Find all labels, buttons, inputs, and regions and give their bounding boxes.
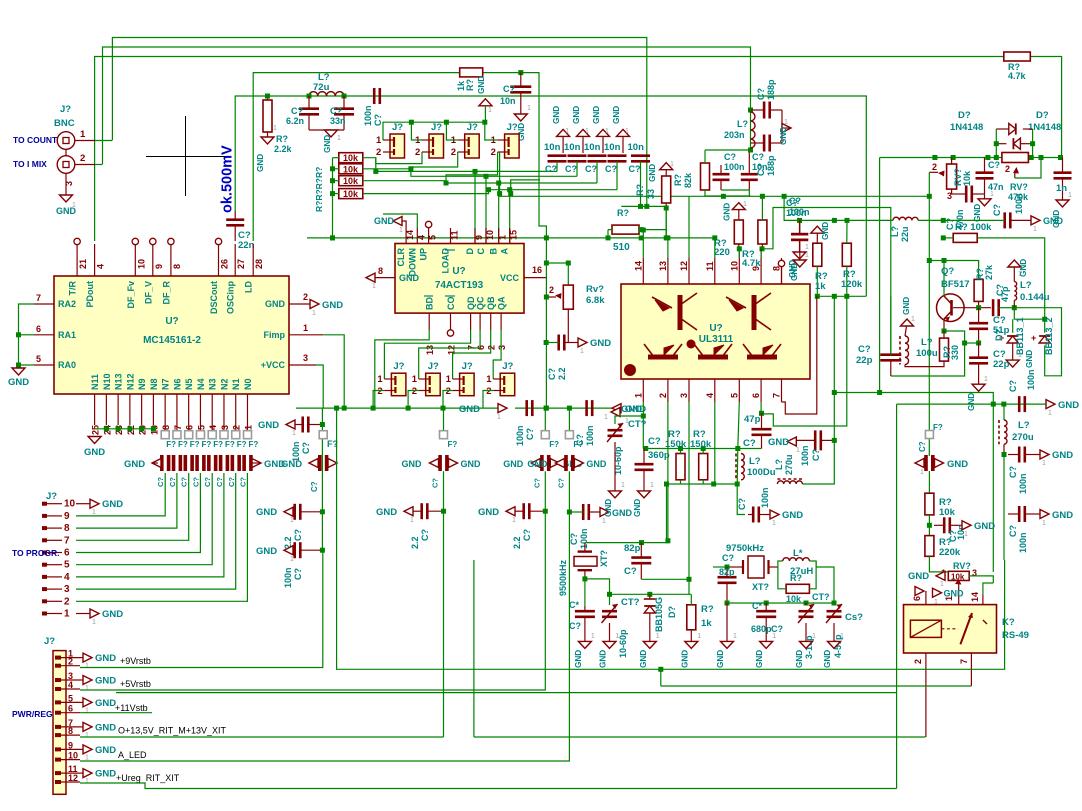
svg-text:F?: F? <box>166 440 176 449</box>
svg-text:16: 16 <box>532 265 542 275</box>
svg-text:Q?: Q? <box>941 266 954 277</box>
svg-text:220k: 220k <box>939 547 961 558</box>
capacitor C? 82p a <box>631 558 651 564</box>
svg-text:C?: C? <box>569 621 581 631</box>
svg-text:GND: GND <box>768 437 789 448</box>
svg-text:5: 5 <box>36 354 41 364</box>
trimmer Cs? 4-57p <box>827 611 842 617</box>
pin 24 N10 <box>105 394 107 425</box>
svg-text:2: 2 <box>415 147 420 158</box>
svg-text:C?: C? <box>605 164 617 174</box>
svg-text:1: 1 <box>565 128 569 135</box>
ground GND xtal row <box>643 641 656 648</box>
svg-text:10k: 10k <box>343 176 359 186</box>
capacitor C? 100n inline <box>374 88 380 104</box>
svg-text:1: 1 <box>697 633 701 640</box>
wire VCC col <box>321 408 323 550</box>
wire routing net5 <box>500 152 930 261</box>
svg-text:1: 1 <box>85 707 89 714</box>
ground GND R2.2k <box>261 137 274 144</box>
svg-text:N8: N8 <box>149 378 159 390</box>
resistor R? 33 <box>662 176 671 203</box>
crosshair marker <box>146 116 225 196</box>
wire top bus 2 <box>103 47 751 164</box>
ground GND flag right col <box>1040 450 1049 459</box>
capacitor C? 33n <box>334 109 354 115</box>
svg-text:D?: D? <box>958 110 971 121</box>
svg-text:C?: C? <box>556 478 565 488</box>
svg-text:OSCinp: OSCinp <box>226 280 236 314</box>
pin 7 UL3111 bottom <box>781 379 783 402</box>
capacitor C* 680p <box>756 611 776 617</box>
svg-text:RS-49: RS-49 <box>1002 630 1029 641</box>
svg-text:L?: L? <box>1018 420 1030 431</box>
svg-text:C?: C? <box>310 481 319 492</box>
svg-text:GND: GND <box>723 203 732 221</box>
pin 14 CLR <box>405 228 407 244</box>
capacitor C? 100n bus a <box>527 400 533 416</box>
svg-text:DF_V: DF_V <box>143 281 153 304</box>
svg-text:26: 26 <box>220 259 230 269</box>
svg-text:100n: 100n <box>283 567 293 588</box>
capacitor C? 6.2n <box>299 109 319 115</box>
svg-text:12: 12 <box>68 773 78 783</box>
svg-text:GND: GND <box>1052 450 1073 461</box>
svg-text:L?: L? <box>737 119 748 129</box>
ground GND under 33n <box>325 130 338 137</box>
svg-text:PWR/REG: PWR/REG <box>12 709 53 719</box>
wire 484 bus <box>667 483 738 485</box>
wire bottom bus 1 <box>337 408 1005 669</box>
wire top bus 3 <box>95 57 1062 242</box>
capacitor C? 100n right <box>1005 212 1011 228</box>
svg-text:N9: N9 <box>137 378 147 390</box>
ground GND 22p <box>972 384 985 391</box>
svg-text:N10: N10 <box>102 373 112 390</box>
svg-text:N1: N1 <box>231 378 241 390</box>
pin 22 N12 <box>129 394 131 425</box>
svg-text:R?: R? <box>790 573 802 583</box>
svg-text:LD: LD <box>244 281 254 293</box>
capacitor C? near UL pin8 <box>791 234 808 240</box>
svg-text:GND: GND <box>586 459 607 469</box>
wire bottom C100n row <box>897 403 1047 405</box>
svg-text:10n: 10n <box>628 142 645 153</box>
svg-text:UP: UP <box>419 248 429 261</box>
pin 28 LD <box>252 244 254 276</box>
svg-text:GND: GND <box>592 106 601 124</box>
svg-text:C?: C? <box>168 477 177 487</box>
svg-text:33: 33 <box>646 189 656 199</box>
transistor pair right in UL3111 <box>726 293 771 330</box>
svg-text:R?R?R?R?: R?R?R?R? <box>314 167 324 212</box>
svg-text:C?: C? <box>293 529 303 541</box>
svg-text:L?: L? <box>921 337 933 348</box>
wire xtal2 wiring <box>727 566 743 568</box>
wire J row1 top bus <box>383 122 485 140</box>
svg-text:1: 1 <box>376 135 382 146</box>
wire diode loop <box>995 129 997 158</box>
svg-text:GND: GND <box>477 76 486 94</box>
svg-text:10k: 10k <box>939 507 956 518</box>
wire UL pin11 <box>714 238 716 258</box>
capacitor C? 10n relay <box>944 517 950 533</box>
svg-text:C?: C? <box>293 568 303 580</box>
wire xtal bottom bus <box>585 579 691 594</box>
svg-text:330: 330 <box>950 345 960 360</box>
pin 13 UL3111 top <box>667 258 669 284</box>
svg-text:BB113_1: BB113_1 <box>1015 317 1025 355</box>
trimmer CT? 3-15p <box>799 611 814 617</box>
ground GND BNC <box>60 195 73 202</box>
svg-text:ok.500mV: ok.500mV <box>220 145 236 213</box>
svg-text:GND: GND <box>823 650 832 668</box>
potentiometer RV? 470k <box>1002 153 1029 163</box>
svg-text:8: 8 <box>68 726 73 736</box>
svg-text:L*: L* <box>793 548 803 559</box>
wire row2 pin2 bus <box>373 391 384 409</box>
svg-text:1: 1 <box>1018 352 1022 359</box>
polarized cap relay col <box>926 455 933 471</box>
svg-text:2: 2 <box>1005 164 1010 174</box>
svg-text:+11Vstb: +11Vstb <box>115 703 148 713</box>
ground GND under C10n <box>514 114 527 121</box>
potentiometer RV? 10k <box>947 164 957 189</box>
wire R1k to cap <box>518 70 523 75</box>
pin 9 UL3111 top <box>760 258 762 284</box>
svg-text:1k: 1k <box>701 618 712 629</box>
svg-text:C?: C? <box>191 477 200 487</box>
svg-text:C?: C? <box>789 196 801 206</box>
wire LD pin28 net <box>253 73 460 241</box>
svg-text:1: 1 <box>446 374 452 385</box>
svg-text:10k: 10k <box>962 170 972 186</box>
svg-text:22p: 22p <box>993 359 1010 370</box>
svg-text:C?: C? <box>1008 466 1018 478</box>
ground GND flag right 100n <box>1031 216 1040 225</box>
ground GND wiper <box>933 588 942 597</box>
wire 82p bottom to pin3 <box>641 578 689 580</box>
svg-text:C?: C? <box>301 442 311 454</box>
svg-text:F?: F? <box>201 440 211 449</box>
ground GND RA pins <box>12 368 25 375</box>
pin 8 stub <box>778 260 784 266</box>
wire routing net3 <box>363 181 597 183</box>
svg-text:J?: J? <box>507 122 518 133</box>
svg-text:L?: L? <box>774 459 784 470</box>
pin 4 DOWN <box>416 228 418 244</box>
capacitor C* cluster left <box>575 611 595 617</box>
wire prog fan <box>76 473 165 516</box>
svg-text:J?: J? <box>44 636 55 647</box>
svg-text:188p: 188p <box>766 79 776 100</box>
svg-text:BF517: BF517 <box>941 279 970 290</box>
svg-text:1: 1 <box>964 531 968 538</box>
svg-text:C?: C? <box>215 477 224 487</box>
svg-text:C?: C? <box>547 368 557 380</box>
pin 23 N13 <box>117 394 119 425</box>
wire mid bus 408 <box>296 407 499 409</box>
capacitor C? 22p bf <box>969 358 988 364</box>
svg-text:GND: GND <box>503 459 524 469</box>
svg-text:22u: 22u <box>900 226 910 242</box>
capacitor C? 22p left <box>880 355 901 361</box>
wire routing net4 <box>363 190 617 194</box>
wire UL pin7 loop <box>782 296 817 414</box>
relay pins top <box>925 591 927 605</box>
capacitor C? 1n <box>1054 173 1072 179</box>
svg-text:7: 7 <box>64 535 70 546</box>
svg-text:U?: U? <box>709 323 722 334</box>
svg-text:GND: GND <box>621 404 642 415</box>
svg-text:1: 1 <box>733 633 737 640</box>
ground GND 2.2 cluster left <box>284 507 293 516</box>
svg-text:GND: GND <box>256 507 277 518</box>
svg-text:1: 1 <box>1042 460 1046 467</box>
svg-text:GND: GND <box>648 164 657 182</box>
resistor R? 10k #3 <box>339 176 363 186</box>
svg-text:C?: C? <box>156 477 165 487</box>
wire base node <box>976 305 981 310</box>
svg-text:1: 1 <box>372 283 376 290</box>
wire R33 down <box>665 208 667 238</box>
svg-text:A_LED: A_LED <box>118 750 147 760</box>
svg-text:GND: GND <box>461 459 482 469</box>
wire 188p join <box>781 110 783 143</box>
svg-text:10: 10 <box>485 230 495 240</box>
svg-text:100n: 100n <box>789 207 810 217</box>
svg-text:2: 2 <box>487 345 497 350</box>
svg-text:1: 1 <box>625 128 629 135</box>
svg-text:N5: N5 <box>184 378 194 390</box>
pin 4 PDout <box>94 244 96 276</box>
capacitor C? 100n right col b <box>1019 506 1025 522</box>
svg-text:1: 1 <box>772 520 776 527</box>
wire bus mid <box>307 237 715 239</box>
svg-text:100n: 100n <box>800 445 810 466</box>
svg-text:1: 1 <box>591 633 595 640</box>
svg-text:GND: GND <box>402 459 423 469</box>
svg-text:1: 1 <box>1048 410 1052 417</box>
svg-text:PDout: PDout <box>85 281 95 308</box>
resistor R? 1k right of UL <box>813 243 822 266</box>
F? bead row-1 <box>161 431 169 439</box>
svg-text:C: C <box>476 248 486 255</box>
svg-text:1n: 1n <box>1056 183 1067 194</box>
wire VCO main net <box>880 157 1061 159</box>
svg-text:1: 1 <box>337 135 341 142</box>
svg-text:10: 10 <box>64 499 76 510</box>
svg-text:GND: GND <box>95 653 116 664</box>
svg-text:GND: GND <box>258 420 279 431</box>
IC U? UL3111 <box>621 284 810 379</box>
svg-text:GND: GND <box>95 698 116 709</box>
F? bead col1 <box>319 431 327 439</box>
svg-text:82p: 82p <box>719 567 735 577</box>
svg-text:270u: 270u <box>1012 432 1034 443</box>
svg-text:GND: GND <box>782 510 803 521</box>
ground GND L100u <box>901 319 914 326</box>
svg-text:1: 1 <box>92 509 96 516</box>
inductor L? 72u <box>309 92 344 96</box>
connector J? row2-1 <box>391 373 406 396</box>
svg-text:9: 9 <box>154 264 164 269</box>
ground GND flag row right <box>252 459 261 468</box>
svg-text:13: 13 <box>658 261 668 271</box>
svg-text:F?: F? <box>225 440 235 449</box>
capacitor C? 360p <box>635 464 654 470</box>
svg-text:QA: QA <box>497 296 507 310</box>
ground GND pot left <box>936 571 945 580</box>
svg-text:GND: GND <box>633 499 642 517</box>
svg-text:10n: 10n <box>604 142 621 153</box>
capacitor C? 82p b <box>718 577 737 583</box>
svg-text:2: 2 <box>377 386 382 397</box>
F? beads mid <box>440 431 448 439</box>
F? bead relay col <box>925 431 933 439</box>
svg-text:10k: 10k <box>343 189 359 199</box>
wire top bus 1 <box>112 38 646 207</box>
svg-text:C?: C? <box>522 529 532 541</box>
svg-text:1: 1 <box>940 581 944 588</box>
svg-text:RA0: RA0 <box>58 360 76 370</box>
svg-text:C?: C? <box>648 436 661 447</box>
svg-text:J?: J? <box>60 104 71 115</box>
pin 1 UL3111 bottom <box>642 379 644 402</box>
resistor R? 82k <box>701 163 710 190</box>
svg-text:C?: C? <box>752 152 764 162</box>
resistor R? 10k #1 <box>339 153 363 163</box>
svg-text:J?: J? <box>462 361 473 372</box>
svg-text:6: 6 <box>751 393 761 398</box>
svg-text:BB105G: BB105G <box>654 597 664 632</box>
svg-text:QC: QC <box>476 296 486 310</box>
svg-text:CO: CO <box>446 297 456 311</box>
svg-text:O+13,5V_RIT_M+13V_XIT: O+13,5V_RIT_M+13V_XIT <box>118 726 227 736</box>
svg-text:2: 2 <box>80 153 85 164</box>
resistor R? 10k #2 <box>339 164 363 174</box>
svg-text:C?: C? <box>737 498 747 510</box>
svg-text:6: 6 <box>64 548 70 559</box>
wire J2 pin drops <box>376 152 422 164</box>
F? bead row-6 <box>220 431 228 439</box>
svg-text:C?: C? <box>373 114 383 126</box>
svg-text:1: 1 <box>377 374 383 385</box>
potentiometer RV? 10k relay <box>948 571 969 580</box>
svg-text:1: 1 <box>290 517 294 524</box>
svg-text:2: 2 <box>658 393 668 398</box>
svg-text:1: 1 <box>605 128 609 135</box>
svg-text:28: 28 <box>254 259 264 269</box>
capacitor C? 2.2 vco <box>559 335 565 351</box>
wire 834 column <box>833 296 835 440</box>
svg-text:1: 1 <box>621 482 625 489</box>
svg-text:RA2: RA2 <box>58 299 76 309</box>
svg-text:2: 2 <box>64 596 70 607</box>
capacitor C? 100n q-out <box>1019 396 1025 412</box>
svg-text:3: 3 <box>64 181 74 186</box>
capacitor C? 100n left col <box>791 234 808 240</box>
connector J? row1-4 <box>505 134 519 158</box>
inductor L* 27uH <box>778 561 783 567</box>
potentiometer Rv? 6.8k <box>563 285 573 309</box>
svg-text:100Du: 100Du <box>747 467 776 478</box>
svg-text:10n: 10n <box>500 96 516 106</box>
svg-text:1: 1 <box>805 244 809 251</box>
svg-text:1: 1 <box>410 517 414 524</box>
svg-text:1: 1 <box>85 778 89 785</box>
svg-text:GND: GND <box>95 745 116 756</box>
capacitor C? 100n right col <box>1002 452 1007 457</box>
ground GND xtal row <box>578 641 591 648</box>
svg-text:C?: C? <box>629 164 641 174</box>
svg-text:47p: 47p <box>744 414 761 425</box>
wire UL pin5 down <box>737 402 739 484</box>
svg-text:GND: GND <box>1019 259 1028 277</box>
wire right col down2 <box>1003 455 1005 561</box>
svg-text:C?: C? <box>722 553 734 563</box>
wire collector node <box>943 261 945 297</box>
svg-text:GND: GND <box>795 650 804 668</box>
pin 8 DF_R <box>170 244 172 276</box>
svg-text:51p: 51p <box>993 325 1010 336</box>
svg-text:360p: 360p <box>648 450 670 461</box>
svg-text:F?: F? <box>549 440 559 449</box>
svg-text:10: 10 <box>136 259 146 269</box>
svg-text:CT?: CT? <box>628 419 647 430</box>
ground GND 360p <box>638 491 651 498</box>
svg-text:120k: 120k <box>841 279 863 290</box>
svg-text:10n: 10n <box>564 142 581 153</box>
svg-text:RV?: RV? <box>1010 182 1028 192</box>
svg-text:8: 8 <box>172 264 182 269</box>
svg-text:F?: F? <box>190 440 200 449</box>
svg-text:GND: GND <box>478 507 499 518</box>
svg-text:GND: GND <box>552 106 561 124</box>
svg-text:GND: GND <box>790 263 799 281</box>
svg-text:8: 8 <box>378 266 383 276</box>
wire N-bus to GND <box>95 428 154 430</box>
transistor bottom row UL3111 <box>644 344 682 357</box>
pin 9 D <box>474 228 476 244</box>
svg-text:QB: QB <box>486 296 496 310</box>
svg-text:0.144u: 0.144u <box>1020 292 1050 303</box>
svg-text:72u: 72u <box>313 82 330 93</box>
wire BB113 loop <box>1014 308 1061 376</box>
svg-text:J?: J? <box>46 491 57 502</box>
svg-text:27: 27 <box>236 259 246 269</box>
svg-text:2: 2 <box>303 292 308 302</box>
svg-text:Cs?: Cs? <box>845 612 863 623</box>
svg-text:100n: 100n <box>760 487 770 508</box>
connector J? row1-1 <box>390 134 405 158</box>
svg-text:5: 5 <box>64 560 70 571</box>
svg-text:F?: F? <box>249 440 259 449</box>
svg-text:1: 1 <box>80 129 86 140</box>
resistor R? 510 <box>612 225 639 234</box>
F? bead row-8 <box>244 431 252 439</box>
svg-text:100n: 100n <box>1014 193 1024 214</box>
capacitor C? 2.2 mid2 + GND <box>506 507 515 516</box>
svg-text:GND: GND <box>256 546 277 557</box>
svg-text:11: 11 <box>450 230 460 240</box>
svg-text:N12: N12 <box>125 373 135 390</box>
pin 5 UP <box>428 228 430 244</box>
pin 11 UL3111 top <box>714 258 716 284</box>
relay pins bottom <box>925 653 927 737</box>
pin 12 UL3111 top <box>688 258 690 284</box>
svg-text:7: 7 <box>772 393 782 398</box>
